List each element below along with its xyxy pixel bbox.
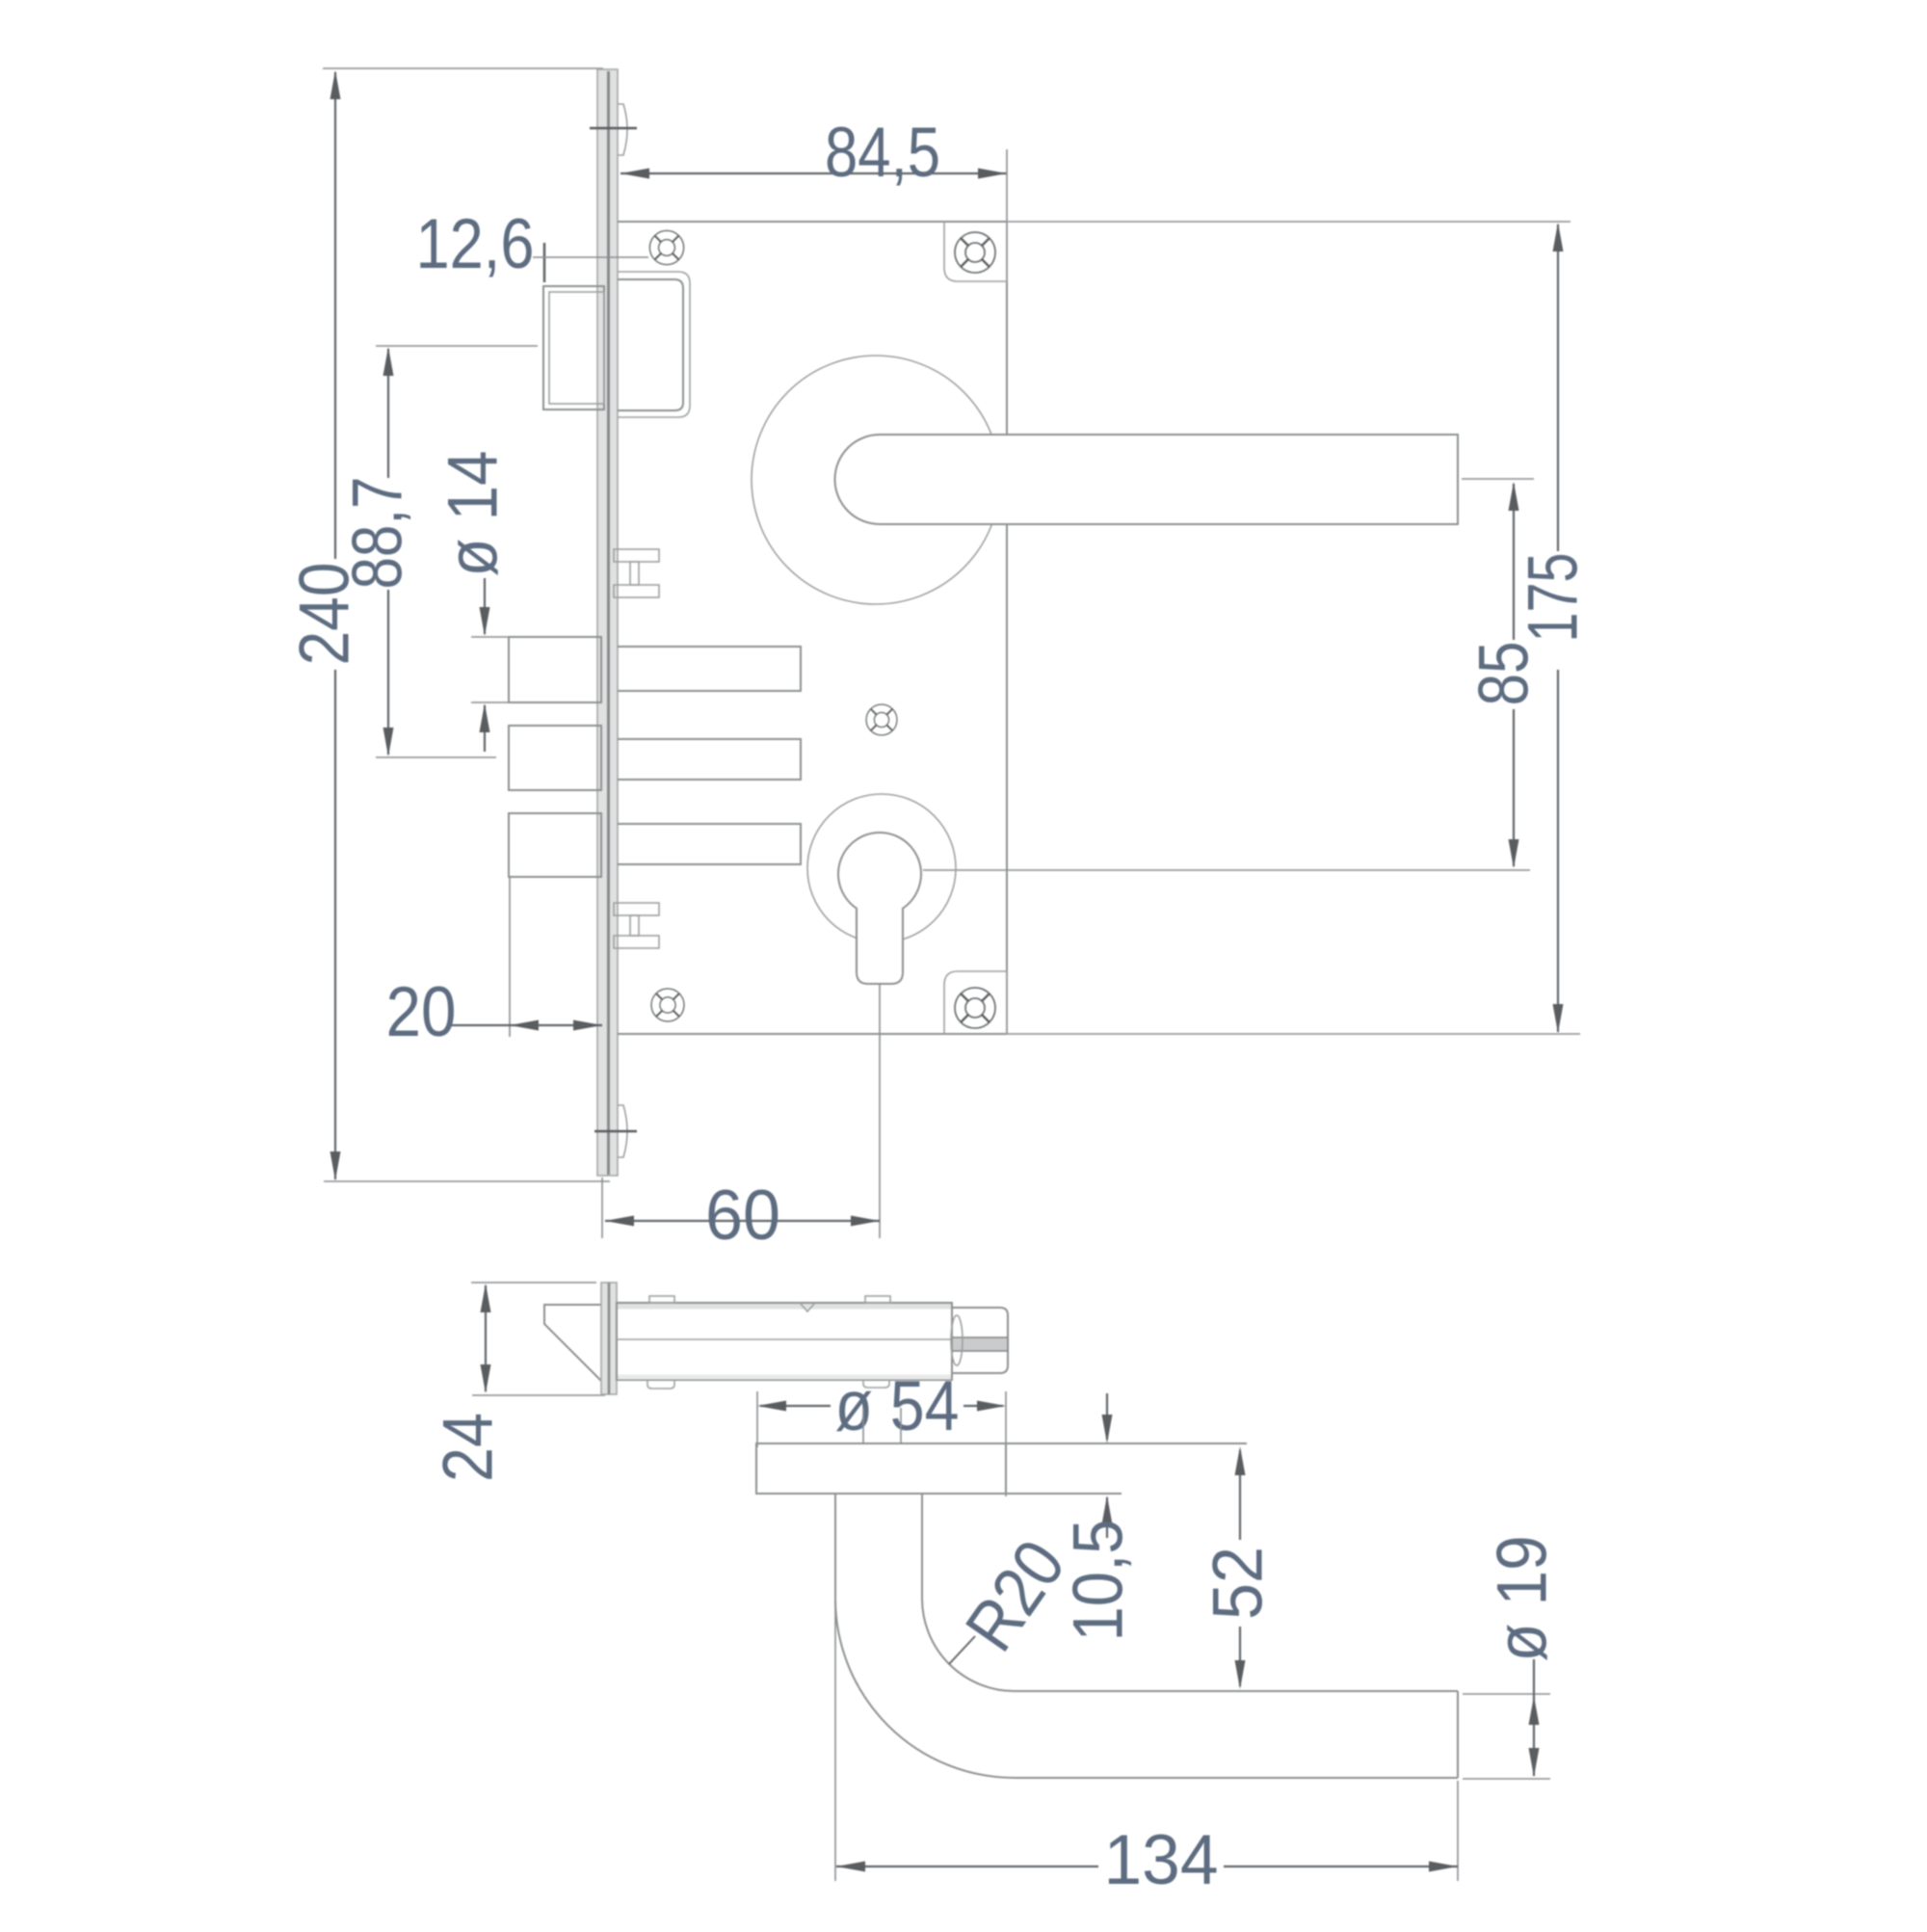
top-right screw plate [944,222,1007,281]
spindle hole projection ticks [862,1408,864,1443]
12,6 leader line [533,256,648,258]
dim 240 line [330,70,341,1180]
dim o19 [1529,1659,1540,1777]
case bottom bump 1 [647,1380,674,1389]
lock case outline [618,222,1007,1034]
faceplate side [601,1283,617,1394]
dim 20 left extension [509,877,511,1037]
dim o54 [757,1401,1006,1412]
bottom-right screw plate [944,971,1007,1034]
latch housing (right of faceplate) [618,272,690,417]
rose circle [752,356,1000,604]
screw center [866,704,897,735]
R20 leader [949,1636,975,1664]
dim 134 [836,1862,1458,1872]
case top tab 2 [865,1296,890,1303]
svg-text:ø 54: ø 54 [835,1367,960,1445]
svg-text:134: 134 [1104,1821,1219,1899]
dim 24 extensions [471,1282,596,1284]
bolt 3 [509,813,601,877]
dim 85 [1509,482,1519,868]
lever center extension [1462,478,1534,480]
dim 84,5 [620,169,1007,179]
rose profile [756,1443,1006,1494]
svg-text:10,5: 10,5 [1060,1520,1138,1642]
screw top-left [649,230,683,264]
svg-text:175: 175 [1515,553,1593,643]
svg-text:20: 20 [386,973,457,1051]
dim o54 extensions [756,1391,758,1447]
12,6 tick [543,243,546,282]
dim 10,5 [1102,1393,1113,1538]
keyhole euro profile [838,833,921,984]
bolt 2 [509,726,601,790]
dim 24 [481,1284,491,1393]
175 top extension [1007,221,1571,223]
cylinder circle [807,794,956,942]
handle inner bend R20 [922,1599,1015,1691]
slot 2 [618,739,801,780]
dim 88,7 line [383,347,394,756]
dim 134 left extension [834,1601,836,1881]
dim 52 [1235,1446,1246,1689]
dim 20 [451,1020,602,1031]
case top notch [800,1303,815,1311]
keyhole centerline [879,985,881,1238]
dim 240 top extension line [323,67,603,69]
84,5 right extension [1006,149,1008,222]
dim 60 [605,1216,880,1227]
dim 60 left extension [601,1178,603,1238]
H tab upper [614,549,659,597]
175 bottom extension [1007,1033,1580,1035]
handle neck [834,1494,836,1599]
case top tab 1 [649,1296,674,1303]
bolt 1 [509,637,601,702]
case bottom bump 2 [863,1380,889,1388]
svg-text:60: 60 [705,1177,780,1255]
rose top extension (10,5 / 52) [1006,1442,1247,1444]
dim 88,7 extensions [376,345,538,347]
svg-text:85: 85 [1465,642,1544,706]
svg-text:52: 52 [1200,1547,1278,1620]
H tab lower [614,903,659,948]
lever handle bar [835,435,1459,524]
svg-text:ø 19: ø 19 [1484,1536,1562,1662]
faceplate [597,69,618,1176]
cylinder center extension [923,869,1530,871]
deadbolt (top, left of faceplate) [543,286,604,410]
faceplate top screw notch [590,104,637,155]
slot 3 [618,824,801,864]
svg-text:ø 14: ø 14 [435,451,513,577]
lock case side [617,1303,952,1380]
handle outer bend [835,1599,1015,1778]
dim 240 bottom extension line [324,1180,610,1182]
svg-text:24: 24 [430,1413,508,1482]
slot 1 (inside case) [618,647,801,691]
svg-text:12,6: 12,6 [416,205,535,283]
handle grip bar [1015,1690,1458,1692]
rose bottom extension (10,5) [1006,1493,1122,1495]
dim 175 [1553,223,1564,1033]
dim 134 right extension [1457,1781,1459,1881]
spindle boss [951,1308,1008,1373]
faceplate bottom screw notch [594,1105,637,1157]
latch bolt wedge [544,1305,601,1381]
svg-text:88,7: 88,7 [339,477,417,590]
screw bottom-left [651,989,684,1021]
dim o19 extensions [1463,1693,1550,1695]
svg-text:84,5: 84,5 [825,114,940,192]
